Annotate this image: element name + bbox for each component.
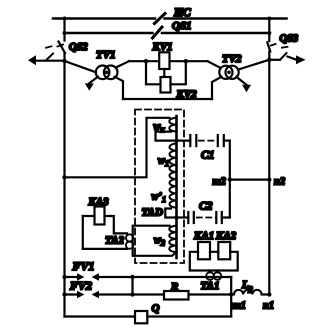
relay coil KV1 [159, 52, 169, 69]
svg-text:QS1: QS1 [172, 20, 192, 32]
wire KV1-KV2 stub [163, 69, 165, 77]
wire left vertical feeder top [63, 19, 65, 41]
spark gap FV1 [65, 273, 100, 280]
node dot KV rail left [144, 59, 148, 63]
wire w2 loop [133, 226, 177, 256]
svg-text:ИС: ИС [173, 7, 191, 19]
core TAD [175, 116, 178, 258]
wire row1 to m1 [99, 276, 231, 278]
node dot QS3 junction [267, 58, 271, 62]
wire w'1 bottom tap [165, 209, 176, 218]
wire KV top rail [129, 60, 208, 62]
wire TV2 secondary bottom drop [212, 77, 222, 99]
wire TV2 primary to QS3 junction [238, 60, 269, 70]
wire right vertical feeder top [268, 19, 270, 42]
capacitor C1 row [177, 135, 230, 146]
resistor R [164, 291, 189, 300]
wire m1 vertical [230, 277, 232, 317]
wire TV1 secondary to KV rail top [116, 61, 129, 67]
spark gap FV2 [65, 291, 100, 298]
svg-text:KA3: KA3 [88, 196, 110, 208]
wire capacitor vertical m2 [229, 141, 231, 218]
relay coil KV2 [161, 77, 171, 93]
svg-text:FV1: FV1 [72, 259, 95, 273]
svg-text:KA1: KA1 [193, 230, 214, 242]
node dot QS2 junction [62, 59, 66, 63]
disconnector QS2 [58, 42, 66, 54]
wire KV left branch [146, 61, 161, 84]
node dot left rail junction [62, 175, 66, 179]
wire KV right branch [171, 61, 186, 84]
svg-text:n1: n1 [263, 301, 274, 312]
relay coil KA2 [218, 242, 230, 259]
svg-text:KA2: KA2 [215, 230, 237, 242]
wire KA3 loop [83, 216, 127, 249]
node dot C1 tap on core [175, 139, 179, 143]
svg-text:m2: m2 [213, 177, 227, 188]
winding wк [169, 118, 176, 132]
node dot row2 link [130, 292, 134, 296]
wire Q to m1 vertical [147, 315, 231, 317]
node dot KV rail right [184, 59, 188, 63]
svg-text:FV2: FV2 [69, 279, 92, 293]
svg-text:KV1: KV1 [152, 41, 173, 53]
transformer TV2 [219, 66, 238, 79]
node n1 [267, 292, 271, 296]
current transformer TA2 [126, 234, 133, 249]
winding w2 [169, 226, 176, 252]
wire TV2 secondary to KV rail [208, 61, 221, 68]
node dot FV2 left [62, 292, 66, 296]
svg-text:QS2: QS2 [69, 42, 88, 53]
node n2 [267, 177, 271, 181]
relay coil KA3 [95, 207, 105, 225]
wire left vertical feeder main [63, 53, 65, 317]
wire link row1-row2 [131, 277, 133, 295]
node dot left vertical / bus2 [63, 31, 67, 35]
wire Lp to n1 [262, 293, 270, 295]
bus ИС (top busbar line 1) [53, 14, 287, 24]
wire m2 to n2 [230, 179, 269, 181]
wire TV1 secondary bottom drop [115, 77, 124, 99]
node dot row1 link [130, 275, 134, 279]
svg-text:m1: m1 [233, 301, 246, 312]
winding w1/w'1 [169, 144, 176, 208]
svg-text:TV1: TV1 [96, 49, 116, 61]
ground at TV2 [236, 77, 251, 93]
disconnector QS3 [267, 42, 275, 51]
svg-text:TA1: TA1 [201, 280, 220, 292]
node dot right vertical / bus1 [267, 17, 271, 21]
wire row2 to R [99, 293, 164, 295]
svg-text:R: R [170, 281, 178, 293]
svg-text:C1: C1 [201, 150, 214, 162]
svg-text:TV2: TV2 [222, 53, 242, 65]
capacitor C2 row [177, 212, 230, 223]
left outgoing line switch and arrow [28, 46, 65, 65]
node dot left vertical / bus1 [63, 17, 67, 21]
wire KV bottom rail [123, 98, 212, 100]
dashed box TAD [135, 110, 184, 264]
ground at TV1 [85, 77, 98, 91]
svg-text:n2: n2 [274, 177, 286, 188]
wire left vertical to TAD rail [65, 118, 170, 178]
node m2 [228, 177, 232, 181]
node dot FV1 left [62, 275, 66, 279]
svg-text:TAD: TAD [142, 207, 163, 219]
current transformer TA1 [206, 272, 221, 280]
transformer TV1 [65, 61, 118, 79]
right outgoing line switch and arrow [269, 47, 305, 64]
node m1 [229, 292, 233, 296]
relay coil KA1 [198, 242, 210, 259]
bus QS1 (busbar line 2 with disconnector slash) [65, 27, 270, 38]
wire right vertical feeder main [268, 52, 270, 295]
svg-text:TA2: TA2 [105, 235, 124, 247]
wire wк bottom tap [156, 132, 177, 141]
svg-text:C2: C2 [199, 201, 213, 213]
wire KA1/KA2 loop [190, 252, 238, 272]
wire R to m1 [189, 293, 232, 295]
node dot C2 tap on core [175, 216, 179, 220]
node dot right vertical / bus2 [267, 31, 271, 35]
svg-text:Q: Q [152, 303, 160, 315]
inductor Lp [234, 290, 262, 295]
svg-text:QS3: QS3 [280, 34, 299, 45]
wire bottom row [65, 315, 136, 317]
breaker Q [135, 311, 147, 323]
